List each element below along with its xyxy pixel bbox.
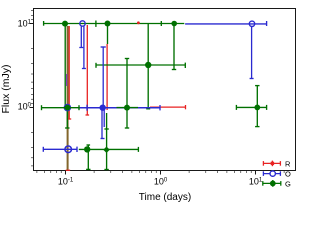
y tick top [30,23,34,25]
green cluster point [145,62,151,68]
green hbar [79,148,139,150]
green yerr bottom1 [87,149,89,169]
blue yerr down double [101,108,103,139]
x tick 10^1 [255,171,257,175]
blue open circle top-left [80,21,85,26]
green point bottom 2 [103,146,110,153]
svg-text:Time (days): Time (days) [139,192,191,203]
green vline P1->G1 cap [64,26,66,109]
blue yerr down [251,26,253,79]
red vline x=87 [86,25,88,115]
G1 xerr [42,107,80,109]
x tick 10^-1 [65,171,67,175]
green vline x=148 top->row3 [147,24,149,109]
red cap bottom of brown [66,169,70,171]
blue circle B2 [100,105,106,111]
green point G1 [64,104,71,111]
green hbar G2 [117,107,139,109]
blue double yerr [80,26,82,48]
green vline P3 down [173,24,175,70]
svg-text:O: O [285,170,291,179]
green point P2 [105,21,111,27]
red entry [263,162,280,164]
brown vline [67,26,69,171]
y tick lower [30,107,34,109]
blue entry [263,173,280,175]
green point P3 [171,21,177,27]
red dot on top bar [137,21,140,24]
svg-text:R: R [285,159,291,168]
minor ticks [36,171,38,173]
svg-text:Flux (mJy): Flux (mJy) [0,65,12,114]
x tick 10^0 [160,171,162,175]
green entry [263,182,281,184]
green point bottom 1 [84,146,90,152]
blue hbar [43,148,77,150]
green vline x=106.6 [106,113,108,170]
axes frame [34,9,296,171]
red vline under P2 [106,44,108,110]
violet segment [66,74,68,86]
blue open circle bottom [65,146,72,153]
green point G2 [124,105,130,111]
red vline 1 [68,26,70,119]
green hbar [96,64,185,66]
svg-text:G: G [285,179,291,188]
blue hbar [78,107,160,109]
green stub below P2 [107,26,109,44]
blue yerr up [102,47,104,108]
blue open circle top-right [249,21,254,26]
red hbar right part [150,106,186,108]
green point P1 [62,21,68,27]
blue hbar top right [185,23,267,25]
green vline x=127 [126,59,128,129]
green hbar [44,23,185,25]
